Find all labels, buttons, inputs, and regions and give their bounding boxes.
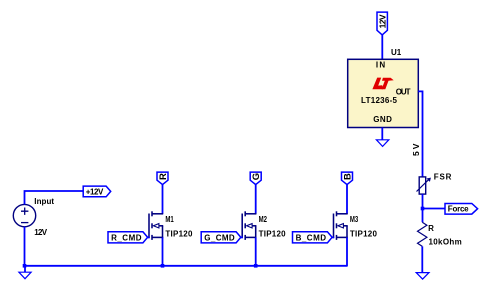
svg-text:M3: M3 [350, 215, 359, 224]
flag Force [445, 204, 478, 215]
svg-text:12V: 12V [377, 14, 387, 28]
svg-text:FSR: FSR [434, 173, 452, 182]
wire V1 top to +12V flag [25, 191, 84, 204]
svg-text:B_CMD: B_CMD [296, 233, 327, 242]
junction M1 source at bus [161, 264, 165, 268]
ground under R [416, 273, 429, 280]
wire V1 bottom to bus [24, 227, 26, 266]
svg-text:B: B [343, 173, 354, 180]
svg-text:GND: GND [373, 115, 392, 124]
wire B flag to M3 drain [346, 185, 348, 214]
svg-text:Input: Input [34, 197, 54, 206]
wire 5V net from OUT to FSR [418, 91, 422, 177]
FSR resistor [417, 177, 431, 194]
wire G_CMD to M2 gate [241, 236, 243, 238]
svg-text:LT1236-5: LT1236-5 [361, 96, 398, 105]
wire R_CMD to M1 gate [148, 236, 150, 238]
svg-text:TIP120: TIP120 [165, 229, 193, 238]
resistor R zigzag [418, 222, 427, 246]
svg-text:G_CMD: G_CMD [204, 233, 235, 242]
junction M2 source at bus [254, 264, 258, 268]
wire R to ground [421, 246, 423, 272]
wire M2 source to bus [255, 237, 257, 265]
svg-text:5V: 5V [411, 143, 421, 156]
svg-text:TIP120: TIP120 [350, 229, 378, 238]
wire M1 source to bus [162, 237, 164, 265]
voltage source V1 [13, 204, 35, 226]
wire 12V flag to U1 IN pin [381, 35, 383, 59]
IC U1 LT1236-5 body [348, 59, 419, 127]
wire FSR to R [422, 194, 424, 222]
flag R_CMD [108, 232, 148, 243]
transistor M3 TIP120 [334, 211, 348, 240]
flag G_CMD [201, 232, 241, 243]
ground under U1 [376, 140, 388, 147]
svg-text:IN: IN [376, 61, 385, 70]
svg-text:R: R [428, 224, 434, 233]
wire G flag to M2 drain [255, 185, 257, 214]
wire R flag to M1 drain [162, 185, 164, 214]
wire node to Force flag [423, 208, 446, 210]
wire bottom bus [25, 265, 348, 267]
svg-text:+12V: +12V [86, 187, 104, 196]
wire M3 source to bus [346, 237, 348, 266]
transistor M2 TIP120 [242, 211, 256, 240]
LT logo [372, 78, 393, 90]
flag G [250, 172, 262, 185]
flag R [157, 172, 169, 185]
svg-text:OUT: OUT [396, 88, 411, 97]
flag +12V [83, 186, 111, 197]
svg-text:M1: M1 [165, 215, 174, 224]
junction Force node [421, 207, 425, 211]
svg-text:G: G [251, 173, 262, 180]
svg-text:TIP120: TIP120 [259, 229, 287, 238]
svg-text:R_CMD: R_CMD [111, 233, 142, 242]
transistor M1 TIP120 [149, 211, 163, 240]
svg-text:M2: M2 [259, 215, 268, 224]
junction at V1 ground [23, 264, 27, 268]
ground under V1 [19, 266, 31, 279]
flag B_CMD [293, 232, 333, 243]
svg-text:10kOhm: 10kOhm [429, 237, 462, 246]
wire U1 GND pin [381, 128, 383, 140]
svg-text:12V: 12V [34, 228, 47, 237]
wire B_CMD to M3 gate [332, 236, 334, 238]
svg-text:Force: Force [448, 205, 469, 214]
svg-text:R: R [158, 173, 169, 180]
flag 12V top [377, 12, 387, 35]
flag B [342, 172, 354, 185]
svg-text:U1: U1 [391, 48, 402, 57]
